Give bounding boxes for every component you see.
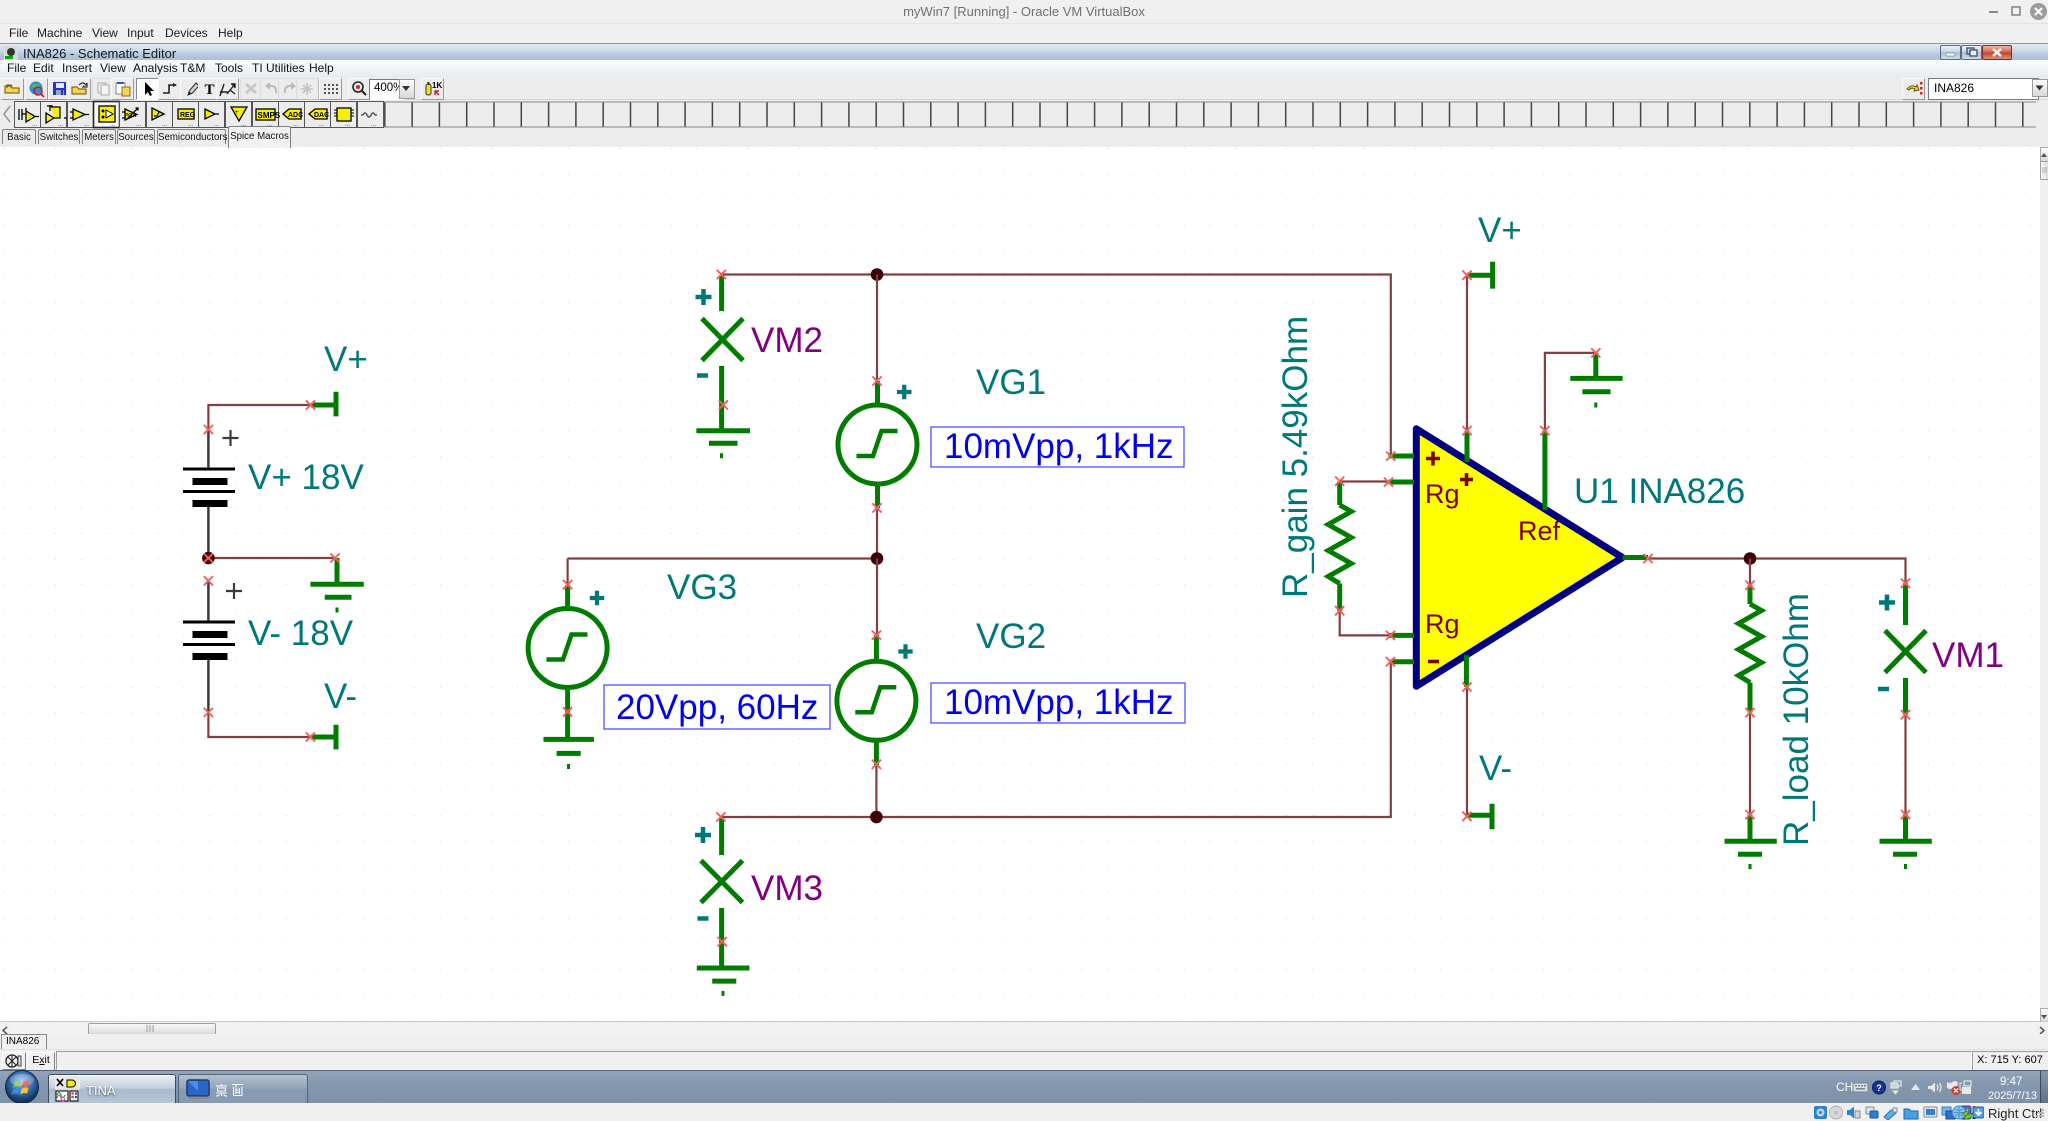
svg-text:ADC: ADC <box>288 112 303 119</box>
svg-text:U1 INA826: U1 INA826 <box>1574 472 1745 511</box>
label VM2 plus <box>696 289 712 305</box>
wire bottom rail <box>722 662 1391 817</box>
svg-text:Ref: Ref <box>1518 516 1561 546</box>
dots under icons <box>32 122 376 128</box>
wire V+ supply top-left <box>208 405 310 430</box>
svg-text:V+ 18V: V+ 18V <box>248 458 364 497</box>
wire output rail <box>1648 559 1906 584</box>
connection crosses <box>204 270 1910 946</box>
svg-text:1K: 1K <box>432 81 442 90</box>
TINA button <box>48 1074 176 1105</box>
label pin + <box>1426 452 1440 466</box>
pin Rg bottom <box>1389 633 1415 638</box>
value label VG3 <box>604 685 830 729</box>
wire VM1 to ground <box>1904 715 1906 815</box>
value label VG2 <box>931 683 1185 723</box>
label V+ top-left <box>324 340 368 379</box>
svg-text:+: + <box>235 110 239 116</box>
pin + input <box>1389 454 1415 459</box>
label VG3 <box>667 568 737 607</box>
label pin Ref <box>1518 516 1561 546</box>
V- terminal right <box>1468 804 1492 829</box>
keyboard icon <box>1853 1083 1868 1092</box>
junction battery midpoint <box>202 552 215 565</box>
svg-text:R_gain 5.49kOhm: R_gain 5.49kOhm <box>1276 316 1315 598</box>
help ball <box>1873 1081 1886 1094</box>
svg-text:?: ? <box>1876 1083 1882 1093</box>
label VG1 plus <box>897 385 912 399</box>
label V- bottom-left <box>324 677 357 716</box>
separators for empty cells <box>384 102 2036 127</box>
cell frames <box>15 102 384 128</box>
label VM3 minus <box>698 916 709 921</box>
wire Ref to ground <box>1545 353 1596 431</box>
svg-text:PGA: PGA <box>125 113 137 119</box>
icons <box>19 105 377 123</box>
pin Ref <box>1542 431 1547 510</box>
label pin Rg bottom <box>1425 609 1460 639</box>
wire V+ power <box>1466 275 1468 431</box>
toolbar row 1 <box>0 77 2048 100</box>
schematic canvas <box>0 147 2040 1021</box>
label pin + inner <box>1460 473 1473 486</box>
junction node A <box>871 552 884 565</box>
virtualbox status bar <box>0 1103 2048 1119</box>
label VG2 plus <box>898 644 912 658</box>
tab row <box>0 129 2048 148</box>
svg-text:...: ... <box>293 122 298 128</box>
label VG2 <box>976 617 1046 656</box>
svg-text:DAC: DAC <box>314 112 329 119</box>
source VG1 <box>838 381 917 508</box>
app menu <box>0 60 2048 77</box>
wire node0 to ground <box>208 557 335 559</box>
junction bottom rail <box>870 811 883 824</box>
pin output <box>1623 555 1649 560</box>
svg-text:SMPS: SMPS <box>258 111 281 120</box>
wire VG1 to node A <box>876 508 878 558</box>
label VM2 <box>751 321 823 360</box>
resistor R_load <box>1739 585 1762 712</box>
voltmeter VM1 <box>1885 583 1926 715</box>
wire R_load to ground <box>1749 713 1751 815</box>
pin V+ power <box>1465 431 1470 462</box>
label VM2 minus <box>697 373 708 378</box>
taskbar <box>0 1070 2048 1104</box>
wire V- to terminal bottom-left <box>208 713 310 738</box>
svg-text:VG3: VG3 <box>667 568 737 607</box>
ground at V supply midpoint <box>310 558 363 610</box>
svg-text:Rg: Rg <box>1425 479 1460 509</box>
ground below VM1 <box>1880 815 1932 867</box>
window + caret <box>1894 1081 1901 1086</box>
junction top rail <box>871 268 884 281</box>
status bar <box>0 1049 2048 1069</box>
network <box>1964 1081 1971 1086</box>
VirtualBox title bar <box>0 0 2048 24</box>
svg-text:VG2: VG2 <box>976 617 1046 656</box>
battery V- 18V <box>183 580 242 713</box>
wire junction to VG1 <box>876 275 878 382</box>
label pin Rg top <box>1425 479 1460 509</box>
svg-text:V+: V+ <box>1478 211 1522 250</box>
label VG3 plus <box>590 591 604 605</box>
svg-text:...: ... <box>319 122 324 128</box>
wire top rail <box>721 275 1390 457</box>
label U1 INA826 <box>1574 472 1745 511</box>
wire R_gain bottom to Rg pin <box>1340 611 1389 635</box>
svg-text:...: ... <box>84 122 89 128</box>
toolbar row 2 <box>0 100 2048 129</box>
pin Rg top <box>1389 480 1415 485</box>
V- terminal bottom-left <box>311 725 336 750</box>
label V+ right <box>1478 211 1522 250</box>
junction output <box>1744 552 1757 565</box>
approximated CJK glyphs (桌面) <box>216 1084 243 1096</box>
V+ terminal top-left <box>311 392 336 417</box>
wire output to R_load <box>1749 559 1751 586</box>
svg-text:...: ... <box>58 122 63 128</box>
svg-text:V-: V- <box>324 677 357 716</box>
pin - input <box>1391 659 1415 664</box>
svg-text:V- 18V: V- 18V <box>248 614 354 653</box>
resistor R_gain <box>1328 482 1351 612</box>
label R_gain 5.49kOhm <box>1276 316 1315 598</box>
vertical scrollbar <box>2040 147 2048 1021</box>
battery V+ 18V <box>183 430 239 559</box>
value label VG1 <box>931 427 1184 467</box>
svg-text:VG1: VG1 <box>976 363 1046 402</box>
speaker <box>1928 1083 1935 1093</box>
label V- 18V <box>248 614 354 653</box>
svg-text:10mVpp, 1kHz: 10mVpp, 1kHz <box>944 427 1174 466</box>
source VG3 <box>528 585 607 712</box>
svg-text:V+: V+ <box>324 340 368 379</box>
up triangle <box>1911 1084 1920 1090</box>
svg-text:...: ... <box>188 122 193 128</box>
label VM3 <box>751 869 823 908</box>
svg-text:...: ... <box>214 122 219 128</box>
svg-text:V-: V- <box>1479 749 1512 788</box>
VirtualBox menu <box>0 24 2048 43</box>
svg-text:Rg: Rg <box>1425 609 1460 639</box>
svg-text:...: ... <box>110 122 115 128</box>
ground below R_load <box>1725 815 1777 867</box>
pin V- power <box>1464 655 1469 687</box>
ground at Ref <box>1570 353 1622 405</box>
label VM1 minus <box>1878 687 1889 692</box>
label VM3 plus <box>695 827 711 843</box>
V+ terminal right <box>1467 262 1493 289</box>
svg-text:R_load 10kOhm: R_load 10kOhm <box>1777 593 1816 846</box>
wire node A to VG2 <box>876 559 878 636</box>
voltmeter VM3 <box>701 818 743 967</box>
label R_load 10kOhm <box>1777 593 1816 846</box>
source VG2 <box>837 635 916 765</box>
document tab <box>0 1034 2048 1048</box>
svg-text:REG: REG <box>180 112 196 119</box>
horizontal scrollbar <box>0 1021 2048 1036</box>
svg-text:VM2: VM2 <box>751 321 823 360</box>
tray <box>1836 1080 1853 1094</box>
wire node A to VG3 <box>566 559 568 586</box>
voltmeter VM2 <box>702 276 743 430</box>
svg-text:...: ... <box>32 122 37 128</box>
svg-text:20Vpp, 60Hz: 20Vpp, 60Hz <box>616 688 818 727</box>
flag <box>1947 1081 1958 1093</box>
svg-text:...: ... <box>136 122 141 128</box>
label VM1 <box>1932 636 2004 675</box>
ground below VG3 <box>544 712 594 767</box>
app window title <box>0 43 2048 61</box>
ground below VM2 <box>696 431 750 456</box>
svg-text:VM3: VM3 <box>751 869 823 908</box>
wire V- power <box>1466 687 1468 815</box>
svg-text:10mVpp, 1kHz: 10mVpp, 1kHz <box>944 683 1174 722</box>
label V+ 18V <box>248 458 364 497</box>
svg-text:...: ... <box>345 122 350 128</box>
op-amp U1 INA826 <box>1416 429 1622 687</box>
wire VG2 to bottom rail <box>875 765 877 817</box>
svg-text:VM1: VM1 <box>1932 636 2004 675</box>
ground below VM3 <box>697 968 750 993</box>
svg-text:...: ... <box>371 122 376 128</box>
svg-text:...: ... <box>162 122 167 128</box>
wire node A horizontal <box>568 557 877 559</box>
label V- right <box>1479 749 1512 788</box>
right side: pointer + INA826 combo <box>1902 78 1925 100</box>
svg-text:T: T <box>204 82 214 98</box>
label VG1 <box>976 363 1046 402</box>
label pin - <box>1428 660 1439 664</box>
wire R_gain top to Rg pin <box>1340 480 1389 482</box>
win7 buttons <box>1940 45 1961 60</box>
desktop button <box>178 1074 308 1105</box>
start orb <box>4 1069 40 1105</box>
label VM1 plus <box>1879 595 1895 611</box>
